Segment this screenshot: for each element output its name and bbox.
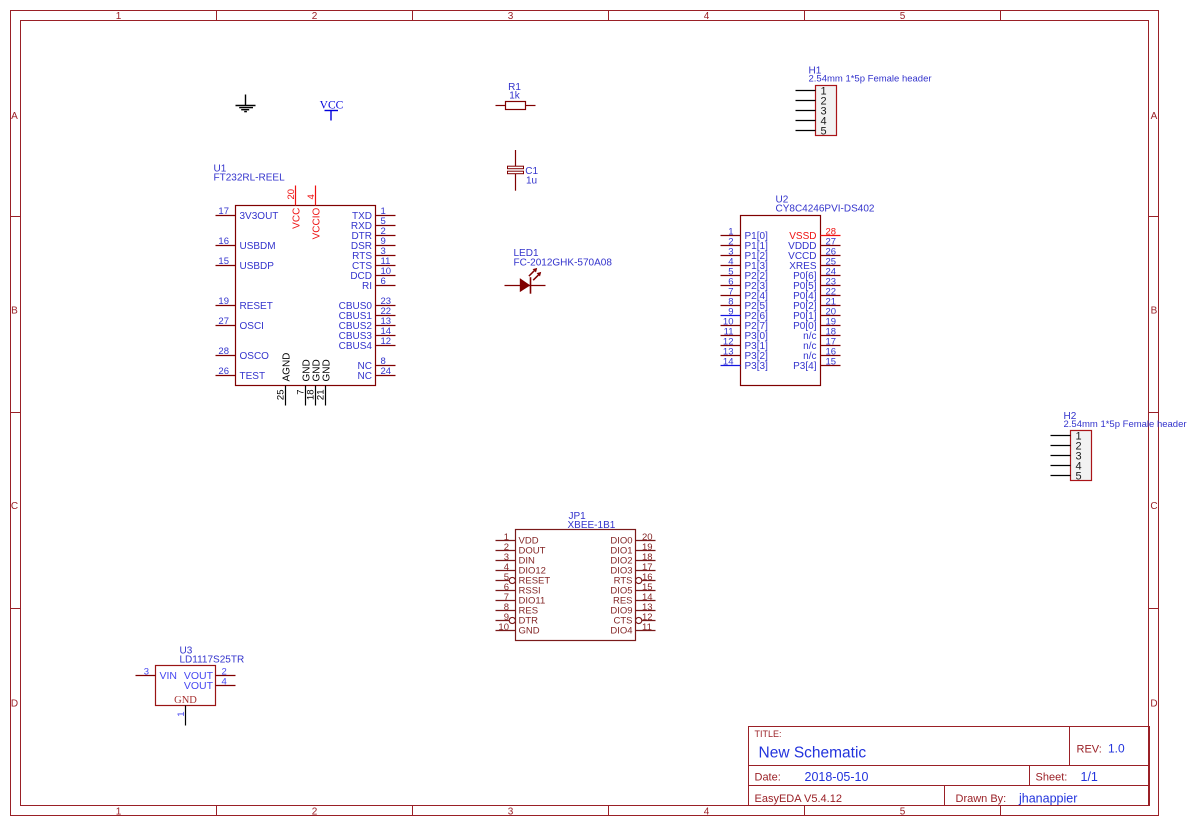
svg-text:GND: GND bbox=[322, 359, 333, 381]
U1 pin 27 (OSCI) bbox=[216, 316, 264, 332]
U2 pin 7 (P2[4]) bbox=[721, 287, 769, 303]
JP1 pin 8 (RES) bbox=[496, 602, 539, 616]
U2 pin 20 (P0[1]) bbox=[793, 307, 840, 323]
svg-text:FC-2012GHK-570A08: FC-2012GHK-570A08 bbox=[514, 258, 613, 269]
U1 pin 3 (RTS) bbox=[352, 246, 395, 262]
svg-text:GND: GND bbox=[519, 625, 540, 636]
JP1 pin 4 (DIO12) bbox=[496, 562, 546, 576]
svg-text:4: 4 bbox=[222, 677, 227, 688]
svg-text:25: 25 bbox=[276, 390, 287, 401]
svg-text:19: 19 bbox=[218, 296, 229, 307]
U1 pin 5 (RXD) bbox=[351, 216, 396, 232]
svg-text:jhanappier: jhanappier bbox=[1018, 792, 1077, 806]
svg-text:LD1117S25TR: LD1117S25TR bbox=[180, 655, 245, 666]
JP1 pin 17 (DIO3) bbox=[610, 562, 655, 576]
U2 pin 12 (P3[1]) bbox=[721, 337, 769, 353]
U1 pin 21 (GND) bbox=[316, 359, 333, 405]
svg-text:16: 16 bbox=[218, 236, 229, 247]
connector JP1 body bbox=[516, 530, 636, 641]
LED LED1 bbox=[505, 268, 546, 294]
U2 pin 5 (P2[2]) bbox=[721, 267, 769, 283]
svg-text:15: 15 bbox=[218, 256, 229, 267]
JP1 pin 15 (DIO5) bbox=[610, 582, 655, 596]
U1 pin 13 (CBUS2) bbox=[339, 316, 396, 332]
U1 pin 9 (DSR) bbox=[351, 236, 396, 252]
U2 pin 13 (P3[2]) bbox=[721, 347, 769, 363]
JP1 pin 13 (DIO9) bbox=[610, 602, 655, 616]
power flag VCC bbox=[320, 100, 344, 121]
JP1 pin 18 (DIO2) bbox=[610, 552, 655, 566]
svg-text:VCCIO: VCCIO bbox=[312, 207, 323, 239]
svg-text:5: 5 bbox=[900, 807, 906, 818]
U1 pin 11 (CTS) bbox=[352, 256, 396, 272]
svg-text:CY8C4246PVI-DS402: CY8C4246PVI-DS402 bbox=[776, 204, 875, 215]
svg-text:1k: 1k bbox=[509, 91, 521, 102]
U2 pin 16 (n/c) bbox=[803, 347, 840, 363]
U1 pin 17 (3V3OUT) bbox=[216, 206, 279, 222]
svg-text:5: 5 bbox=[900, 11, 906, 22]
svg-text:GND: GND bbox=[174, 695, 197, 706]
H2 pin 1 bbox=[1051, 431, 1082, 443]
JP1 pin 14 (RES) bbox=[613, 592, 656, 606]
svg-text:OSCI: OSCI bbox=[240, 321, 264, 332]
U2 pin 18 (n/c) bbox=[803, 327, 840, 343]
JP1 pin 1 (VDD) bbox=[496, 532, 539, 546]
U2 pin 17 (n/c) bbox=[803, 337, 840, 353]
U2 pin 19 (P0[0]) bbox=[793, 317, 840, 333]
H1 pin 1 bbox=[796, 86, 827, 98]
U1 pin 28 (OSCO) bbox=[216, 346, 270, 362]
U2 pin 21 (P0[2]) bbox=[793, 297, 840, 313]
JP1 pin 6 (RSSI) bbox=[496, 582, 541, 596]
resistor R1 bbox=[496, 102, 536, 110]
JP1 pin 12 (CTS) bbox=[614, 612, 656, 626]
U1 pin 26 (TEST) bbox=[216, 366, 266, 382]
svg-text:OSCO: OSCO bbox=[240, 351, 270, 362]
svg-text:1: 1 bbox=[176, 712, 187, 717]
U1 pin 25 (AGND) bbox=[276, 353, 293, 406]
U2 pin 1 (P1[0]) bbox=[721, 227, 769, 243]
svg-text:1: 1 bbox=[116, 807, 122, 818]
svg-text:28: 28 bbox=[218, 346, 229, 357]
U1 pin 8 (NC) bbox=[358, 356, 396, 372]
svg-text:3: 3 bbox=[144, 667, 149, 678]
H1 pin 5 bbox=[796, 126, 827, 138]
svg-text:2: 2 bbox=[312, 807, 318, 818]
svg-text:1/1: 1/1 bbox=[1081, 770, 1098, 784]
U2 pin 26 (VCCD) bbox=[788, 247, 840, 263]
svg-text:XBEE-1B1: XBEE-1B1 bbox=[568, 520, 616, 531]
svg-text:USBDP: USBDP bbox=[240, 261, 275, 272]
H1 pin 3 bbox=[796, 106, 827, 118]
U1 pin 7 (GND) bbox=[296, 359, 313, 405]
U2 pin 6 (P2[3]) bbox=[721, 277, 769, 293]
svg-text:RI: RI bbox=[362, 281, 372, 292]
svg-text:VIN: VIN bbox=[160, 670, 178, 682]
svg-text:24: 24 bbox=[381, 366, 392, 377]
U2 pin 10 (P2[7]) bbox=[721, 317, 769, 333]
svg-text:1.0: 1.0 bbox=[1108, 742, 1125, 756]
JP1 pin 19 (DIO1) bbox=[610, 542, 655, 556]
U1 pin 16 (USBDM) bbox=[216, 236, 276, 252]
svg-text:3: 3 bbox=[508, 11, 514, 22]
U2 pin 15 (P3[4]) bbox=[793, 357, 840, 373]
connector H1 body bbox=[816, 86, 837, 136]
U2 pin 28 (VSSD) bbox=[789, 227, 840, 243]
U1 pin 23 (CBUS0) bbox=[339, 296, 396, 312]
svg-text:12: 12 bbox=[381, 336, 392, 347]
U1 pin 14 (CBUS3) bbox=[339, 326, 396, 342]
U3 pin 4 (VOUT) bbox=[184, 677, 236, 693]
U1 pin 15 (USBDP) bbox=[216, 256, 275, 272]
svg-text:Drawn By:: Drawn By: bbox=[956, 793, 1007, 805]
svg-text:C: C bbox=[1150, 501, 1157, 512]
U1 pin 18 (GND) bbox=[306, 359, 323, 405]
svg-text:TEST: TEST bbox=[240, 371, 266, 382]
H2 pin 2 bbox=[1051, 441, 1082, 453]
U1 pin 6 (RI) bbox=[362, 276, 396, 292]
U2 pin 23 (P0[5]) bbox=[793, 277, 840, 293]
svg-text:Date:: Date: bbox=[755, 772, 781, 784]
H2 pin 3 bbox=[1051, 451, 1082, 463]
JP1 pin 7 (DIO11) bbox=[496, 592, 546, 606]
JP1 pin 9 (DTR) bbox=[496, 612, 539, 626]
svg-text:Sheet:: Sheet: bbox=[1036, 772, 1068, 784]
U2 pin 24 (P0[6]) bbox=[793, 267, 840, 283]
H2 pin 5 bbox=[1051, 471, 1082, 483]
IC U2 body bbox=[741, 216, 821, 386]
svg-text:D: D bbox=[11, 699, 18, 710]
svg-text:REV:: REV: bbox=[1077, 744, 1102, 756]
svg-text:VCC: VCC bbox=[292, 208, 303, 229]
svg-text:21: 21 bbox=[316, 390, 327, 401]
svg-text:VOUT: VOUT bbox=[184, 680, 214, 692]
svg-text:2018-05-10: 2018-05-10 bbox=[805, 770, 869, 784]
svg-text:1: 1 bbox=[116, 11, 122, 22]
svg-text:New Schematic: New Schematic bbox=[759, 745, 867, 762]
svg-text:B: B bbox=[1151, 306, 1158, 317]
U2 pin 14 (P3[3]) bbox=[721, 357, 769, 373]
svg-text:3V3OUT: 3V3OUT bbox=[240, 211, 279, 222]
U1 pin 4 (VCCIO) power bbox=[306, 186, 323, 240]
svg-text:NC: NC bbox=[358, 371, 372, 382]
ground symbol bbox=[236, 95, 256, 112]
svg-text:C: C bbox=[11, 501, 18, 512]
svg-text:14: 14 bbox=[723, 357, 734, 368]
svg-text:TITLE:: TITLE: bbox=[755, 729, 782, 739]
svg-text:17: 17 bbox=[218, 206, 229, 217]
U2 pin 25 (XRES) bbox=[789, 257, 840, 273]
U3 pin 1 (GND) bbox=[174, 695, 197, 726]
U2 pin 22 (P0[4]) bbox=[793, 287, 840, 303]
U1 pin 10 (DCD) bbox=[350, 266, 395, 282]
H1 pin 2 bbox=[796, 96, 827, 108]
H1 pin 4 bbox=[796, 116, 827, 128]
U2 pin 8 (P2[5]) bbox=[721, 297, 769, 313]
svg-text:11: 11 bbox=[642, 622, 652, 633]
IC U1 body bbox=[236, 206, 376, 386]
U1 pin 20 (VCC) power bbox=[286, 186, 303, 229]
IC U3 body bbox=[156, 666, 216, 706]
svg-text:3: 3 bbox=[508, 807, 514, 818]
svg-text:AGND: AGND bbox=[282, 353, 293, 382]
svg-text:RESET: RESET bbox=[240, 301, 273, 312]
JP1 pin 11 (DIO4) bbox=[610, 622, 655, 636]
JP1 pin 5 (RESET) bbox=[496, 572, 551, 586]
U2 pin 9 (P2[6]) bbox=[721, 307, 769, 323]
U1 pin 12 (CBUS4) bbox=[339, 336, 396, 352]
JP1 pin 20 (DIO0) bbox=[610, 532, 655, 546]
JP1 pin 10 (GND) bbox=[496, 622, 540, 636]
U1 pin 22 (CBUS1) bbox=[339, 306, 396, 322]
svg-text:4: 4 bbox=[704, 807, 710, 818]
svg-text:10: 10 bbox=[498, 622, 509, 633]
U1 pin 24 (NC) bbox=[358, 366, 396, 382]
U1 pin 2 (DTR) bbox=[351, 226, 395, 242]
svg-text:2.54mm 1*5p Female header: 2.54mm 1*5p Female header bbox=[809, 74, 932, 85]
svg-text:EasyEDA V5.4.12: EasyEDA V5.4.12 bbox=[755, 793, 842, 805]
svg-text:VCC: VCC bbox=[320, 100, 344, 112]
svg-text:DIO4: DIO4 bbox=[610, 625, 632, 636]
connector H2 body bbox=[1071, 431, 1092, 481]
capacitor C1 bbox=[508, 150, 524, 191]
JP1 pin 2 (DOUT) bbox=[496, 542, 546, 556]
U1 pin 1 (TXD) bbox=[352, 206, 396, 222]
U2 pin 2 (P1[1]) bbox=[721, 237, 769, 253]
svg-text:4: 4 bbox=[306, 194, 317, 199]
JP1 pin 3 (DIN) bbox=[496, 552, 536, 566]
svg-text:A: A bbox=[11, 111, 18, 122]
svg-text:USBDM: USBDM bbox=[240, 241, 276, 252]
JP1 pin 16 (RTS) bbox=[614, 572, 656, 586]
svg-text:27: 27 bbox=[218, 316, 229, 327]
svg-text:1u: 1u bbox=[526, 175, 537, 186]
svg-text:15: 15 bbox=[826, 357, 837, 368]
U2 pin 4 (P1[3]) bbox=[721, 257, 769, 273]
title block frame bbox=[749, 727, 1150, 806]
U2 pin 3 (P1[2]) bbox=[721, 247, 769, 263]
U2 pin 11 (P3[0]) bbox=[721, 327, 769, 343]
svg-text:5: 5 bbox=[1075, 471, 1081, 483]
svg-text:5: 5 bbox=[820, 126, 826, 138]
svg-text:4: 4 bbox=[704, 11, 710, 22]
svg-text:20: 20 bbox=[286, 189, 297, 200]
svg-text:26: 26 bbox=[218, 366, 229, 377]
svg-text:CBUS4: CBUS4 bbox=[339, 341, 373, 352]
svg-text:FT232RL-REEL: FT232RL-REEL bbox=[214, 173, 286, 184]
svg-text:A: A bbox=[1151, 111, 1158, 122]
H2 pin 4 bbox=[1051, 461, 1082, 473]
svg-text:D: D bbox=[1150, 699, 1157, 710]
U1 pin 19 (RESET) bbox=[216, 296, 273, 312]
svg-text:B: B bbox=[11, 306, 18, 317]
svg-text:P3[3]: P3[3] bbox=[745, 361, 769, 372]
svg-text:2: 2 bbox=[312, 11, 318, 22]
svg-text:6: 6 bbox=[381, 276, 386, 287]
U3 pin 3 (VIN) bbox=[136, 667, 178, 683]
svg-text:P3[4]: P3[4] bbox=[793, 361, 817, 372]
U3 pin 2 (VOUT) bbox=[184, 667, 236, 683]
U2 pin 27 (VDDD) bbox=[788, 237, 840, 253]
svg-text:2.54mm 1*5p Female header: 2.54mm 1*5p Female header bbox=[1064, 419, 1187, 430]
